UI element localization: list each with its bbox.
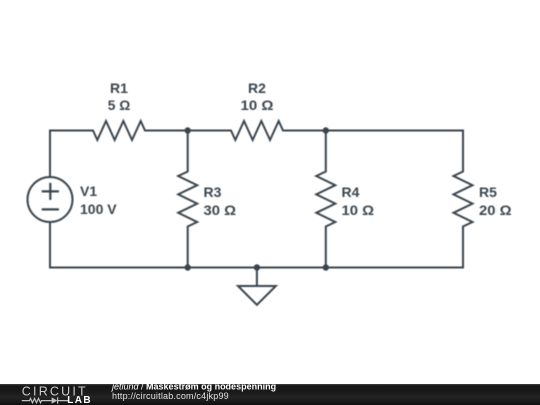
- svg-text:10 Ω: 10 Ω: [342, 202, 375, 218]
- svg-text:http://circuitlab.com/c4jkp99: http://circuitlab.com/c4jkp99: [112, 391, 229, 401]
- svg-text:100 V: 100 V: [80, 201, 117, 217]
- svg-text:30 Ω: 30 Ω: [204, 202, 237, 218]
- svg-text:5 Ω: 5 Ω: [108, 97, 131, 113]
- svg-text:R4: R4: [342, 184, 360, 200]
- svg-text:R1: R1: [110, 80, 128, 96]
- svg-text:LAB: LAB: [67, 395, 92, 405]
- svg-text:V1: V1: [80, 183, 97, 199]
- svg-text:20 Ω: 20 Ω: [479, 202, 512, 218]
- svg-text:10 Ω: 10 Ω: [241, 97, 274, 113]
- svg-text:R3: R3: [204, 184, 222, 200]
- svg-text:R5: R5: [479, 184, 497, 200]
- svg-text:R2: R2: [248, 80, 266, 96]
